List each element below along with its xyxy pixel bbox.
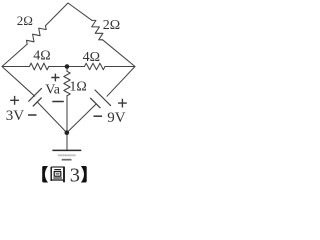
wire top vertex to left 2ohm resistor [46,3,69,26]
caption glyph tu (figure) [51,167,64,183]
battery V2 9V long plate (+) [95,90,111,106]
wire right 2ohm resistor to right vertex [103,40,135,67]
plus sign of 3V [10,96,19,105]
plus sign of Va [51,74,59,82]
wire left vertex to 3V battery [2,67,35,97]
wire top vertex to right 2ohm resistor [68,3,92,20]
resistor R4 4ohm (right horizontal) [85,63,106,70]
svg-text:4Ω: 4Ω [83,50,100,65]
wire right vertex to 9V battery [107,67,135,97]
svg-text:3: 3 [70,164,80,186]
wire right 4ohm to right vertex [105,66,135,68]
caption bracket right [81,166,87,183]
resistor R3 4ohm (left horizontal) [30,63,49,70]
svg-text:2Ω: 2Ω [17,13,33,28]
ground [52,150,81,159]
minus sign of 3V [28,114,37,116]
svg-text:4Ω: 4Ω [33,48,50,63]
svg-text:2Ω: 2Ω [103,18,120,33]
plus sign of 9V [118,99,127,108]
resistor R1 2ohm (upper-left diagonal) [27,26,47,44]
caption bracket left [42,166,48,183]
battery V1 3V short plate (-) [33,98,41,106]
svg-text:Va: Va [45,83,61,98]
battery V2 9V short plate (-) [91,98,101,108]
wire bottom node to ground [66,133,68,151]
wire 9V battery to bottom node [67,104,97,133]
minus sign of 9V [94,115,103,117]
resistor R2 2ohm (upper-right diagonal) [92,20,103,39]
wire centre node to right 4ohm [67,66,85,68]
svg-text:3V: 3V [6,108,25,124]
wire centre node down to 1ohm resistor [66,67,68,72]
wire left 4ohm to centre node [49,66,67,68]
minus sign of Va [52,101,64,103]
svg-text:1Ω: 1Ω [69,80,86,95]
resistor R5 1ohm (vertical centre) [64,71,70,96]
wire 1ohm resistor to bottom node [66,96,68,133]
wire 3V battery to bottom node [37,102,67,133]
node A centre junction dot [65,64,70,69]
wire left 2ohm resistor to left vertex [2,44,27,66]
wire left vertex to left 4ohm resistor [2,66,30,68]
node B bottom junction dot [65,130,70,135]
battery V1 3V long plate (+) [29,88,42,101]
svg-text:9V: 9V [107,110,126,126]
